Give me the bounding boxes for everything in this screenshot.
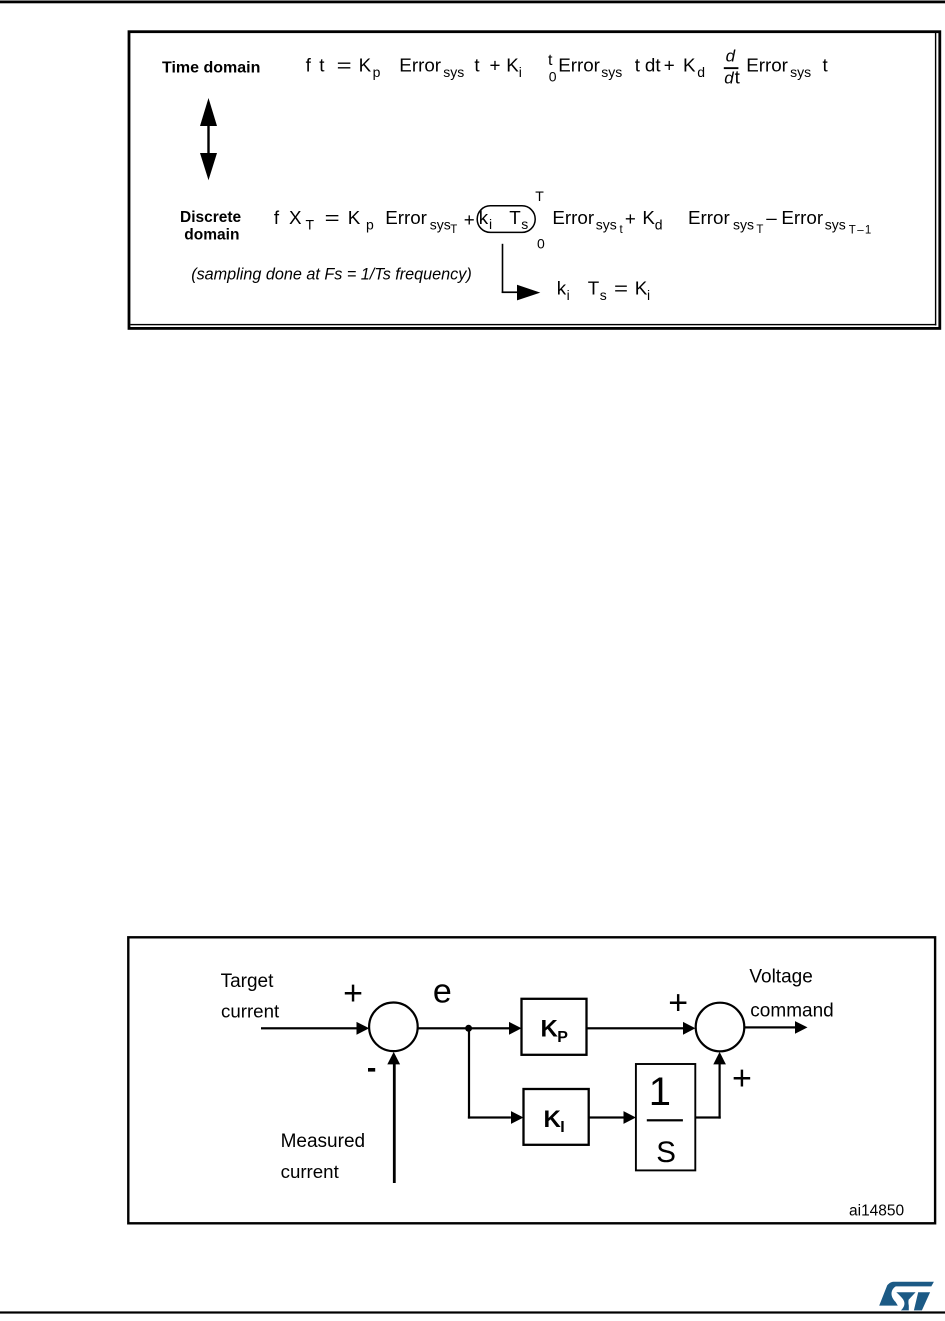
wire: 1/S right then up into circle 2 [695, 1116, 720, 1118]
wire: KI to 1/S [589, 1116, 624, 1118]
svg-text:1: 1 [649, 1070, 671, 1114]
logo T stem [914, 1292, 930, 1310]
svg-text:Measured: Measured [281, 1131, 366, 1152]
svg-text:sys: sys [596, 216, 617, 232]
block Kp [522, 999, 587, 1055]
wire: circle1 to junction dot to Kp [417, 1027, 509, 1029]
svg-text:i: i [647, 287, 650, 303]
svg-text:=: = [337, 54, 352, 75]
svg-text:d: d [726, 47, 736, 66]
equation 2 [274, 188, 871, 252]
header rule [0, 1, 945, 4]
svg-text:T: T [450, 224, 457, 236]
svg-text:T: T [849, 225, 856, 237]
svg-text:sys: sys [825, 216, 846, 232]
svg-text:f: f [274, 207, 280, 228]
svg-text:domain: domain [184, 227, 239, 244]
svg-text:X: X [289, 207, 302, 228]
svg-text:sys: sys [601, 64, 622, 80]
block 1/S [636, 1064, 695, 1170]
svg-text:d: d [697, 64, 705, 80]
wire: input arrow into summing junction 1 [261, 1027, 358, 1029]
svg-text:=: = [614, 278, 628, 299]
svg-text:–: – [857, 225, 864, 237]
figure 1 frame outer [129, 32, 940, 329]
wire: junction down and right to KI [468, 1028, 470, 1118]
svg-text:0: 0 [549, 68, 557, 84]
svg-text:I: I [560, 1119, 564, 1136]
svg-text:Time domain: Time domain [162, 60, 260, 77]
svg-text:t: t [620, 224, 624, 236]
svg-text:s: s [600, 287, 607, 303]
svg-text:K: K [348, 207, 361, 228]
svg-text:Error: Error [558, 54, 600, 75]
svg-text:K: K [359, 54, 372, 75]
svg-text:+: + [664, 54, 675, 75]
summing junction circle 2 [696, 1003, 745, 1052]
svg-text:s: s [521, 216, 528, 232]
svg-text:command: command [750, 1000, 833, 1021]
svg-text:k: k [479, 207, 489, 228]
svg-text:Target: Target [221, 971, 275, 992]
svg-text:t: t [735, 67, 741, 88]
footer rule [0, 1311, 945, 1313]
svg-text:=: = [325, 207, 340, 228]
svg-text:T: T [306, 216, 315, 232]
block KI [524, 1089, 589, 1145]
summing junction circle 1 [369, 1003, 418, 1052]
svg-text:e: e [433, 973, 452, 1011]
logo S with top bar [879, 1282, 934, 1306]
ST logo [879, 1282, 934, 1311]
svg-text:Error: Error [385, 207, 427, 228]
svg-text:Error: Error [688, 207, 730, 228]
svg-text:+: + [343, 975, 363, 1013]
svg-text:t: t [474, 54, 480, 75]
svg-text:k: k [557, 278, 567, 299]
svg-text:sys: sys [733, 216, 754, 232]
svg-text:p: p [366, 216, 374, 232]
svg-text:Voltage: Voltage [749, 966, 812, 987]
svg-text:Error: Error [552, 207, 594, 228]
svg-text:t: t [823, 54, 829, 75]
svg-text:f: f [306, 54, 312, 75]
minus sign below circle 1 [368, 1068, 375, 1072]
svg-text:i: i [567, 287, 570, 303]
svg-text:–: – [766, 207, 777, 228]
svg-text:+: + [625, 208, 636, 229]
svg-text:sys: sys [430, 216, 451, 232]
output arrow [745, 1026, 796, 1028]
svg-text:p: p [373, 64, 381, 80]
svg-text:t: t [548, 52, 553, 69]
svg-text:t: t [635, 54, 641, 75]
wire: measured current up into circle 1 [393, 1064, 396, 1183]
svg-text:K: K [642, 207, 655, 228]
svg-text:current: current [221, 1001, 280, 1022]
equation 1 : f(t) = Kp Error_sys(t) + Ki int Error_sys(t)dt + Kd d/dt Error_sys(t) [306, 47, 829, 88]
svg-text:current: current [281, 1161, 340, 1182]
svg-text:+: + [490, 54, 501, 75]
svg-text:d: d [655, 216, 663, 232]
svg-text:1: 1 [865, 225, 871, 237]
svg-text:T: T [509, 207, 521, 228]
svg-text:Discrete: Discrete [180, 209, 242, 226]
svg-text:K: K [541, 1015, 559, 1042]
ki Ts = Ki [557, 278, 650, 304]
double-headed vertical arrow [200, 98, 217, 180]
svg-text:Error: Error [399, 54, 441, 75]
svg-text:K: K [544, 1106, 562, 1133]
figure 2 frame [128, 937, 935, 1223]
svg-text:+: + [732, 1060, 752, 1098]
svg-text:T: T [535, 188, 544, 204]
svg-text:ai14850: ai14850 [849, 1202, 905, 1219]
svg-text:T: T [588, 278, 600, 299]
svg-text:dt: dt [645, 54, 661, 75]
svg-text:Error: Error [781, 207, 823, 228]
svg-text:t: t [319, 54, 325, 75]
wire: Kp to summing junction 2 [587, 1027, 684, 1029]
svg-text:P: P [557, 1029, 568, 1046]
figure 1 inner frame bottom line [130, 324, 936, 325]
svg-text:sys: sys [790, 64, 811, 80]
svg-text:K: K [635, 278, 648, 299]
logo S middle funnel [896, 1292, 915, 1310]
figure 1 inner frame right line [935, 33, 936, 326]
svg-text:+: + [668, 984, 688, 1022]
svg-text:K: K [683, 54, 696, 75]
svg-text:i: i [519, 64, 522, 80]
svg-text:d: d [724, 69, 734, 88]
ellipse around ki Ts [477, 206, 535, 233]
svg-text:0: 0 [537, 236, 545, 252]
svg-text:(sampling done at Fs = 1/Ts fr: (sampling done at Fs = 1/Ts frequency) [191, 266, 472, 284]
junction dot [465, 1025, 472, 1032]
svg-text:S: S [656, 1136, 676, 1169]
pointer from ellipse to ki Ts = Ki [502, 244, 541, 301]
svg-text:T: T [756, 224, 763, 236]
svg-text:sys: sys [443, 64, 464, 80]
svg-text:K: K [506, 54, 519, 75]
svg-text:Error: Error [746, 54, 788, 75]
svg-text:i: i [489, 216, 492, 232]
svg-text:+: + [464, 209, 475, 230]
